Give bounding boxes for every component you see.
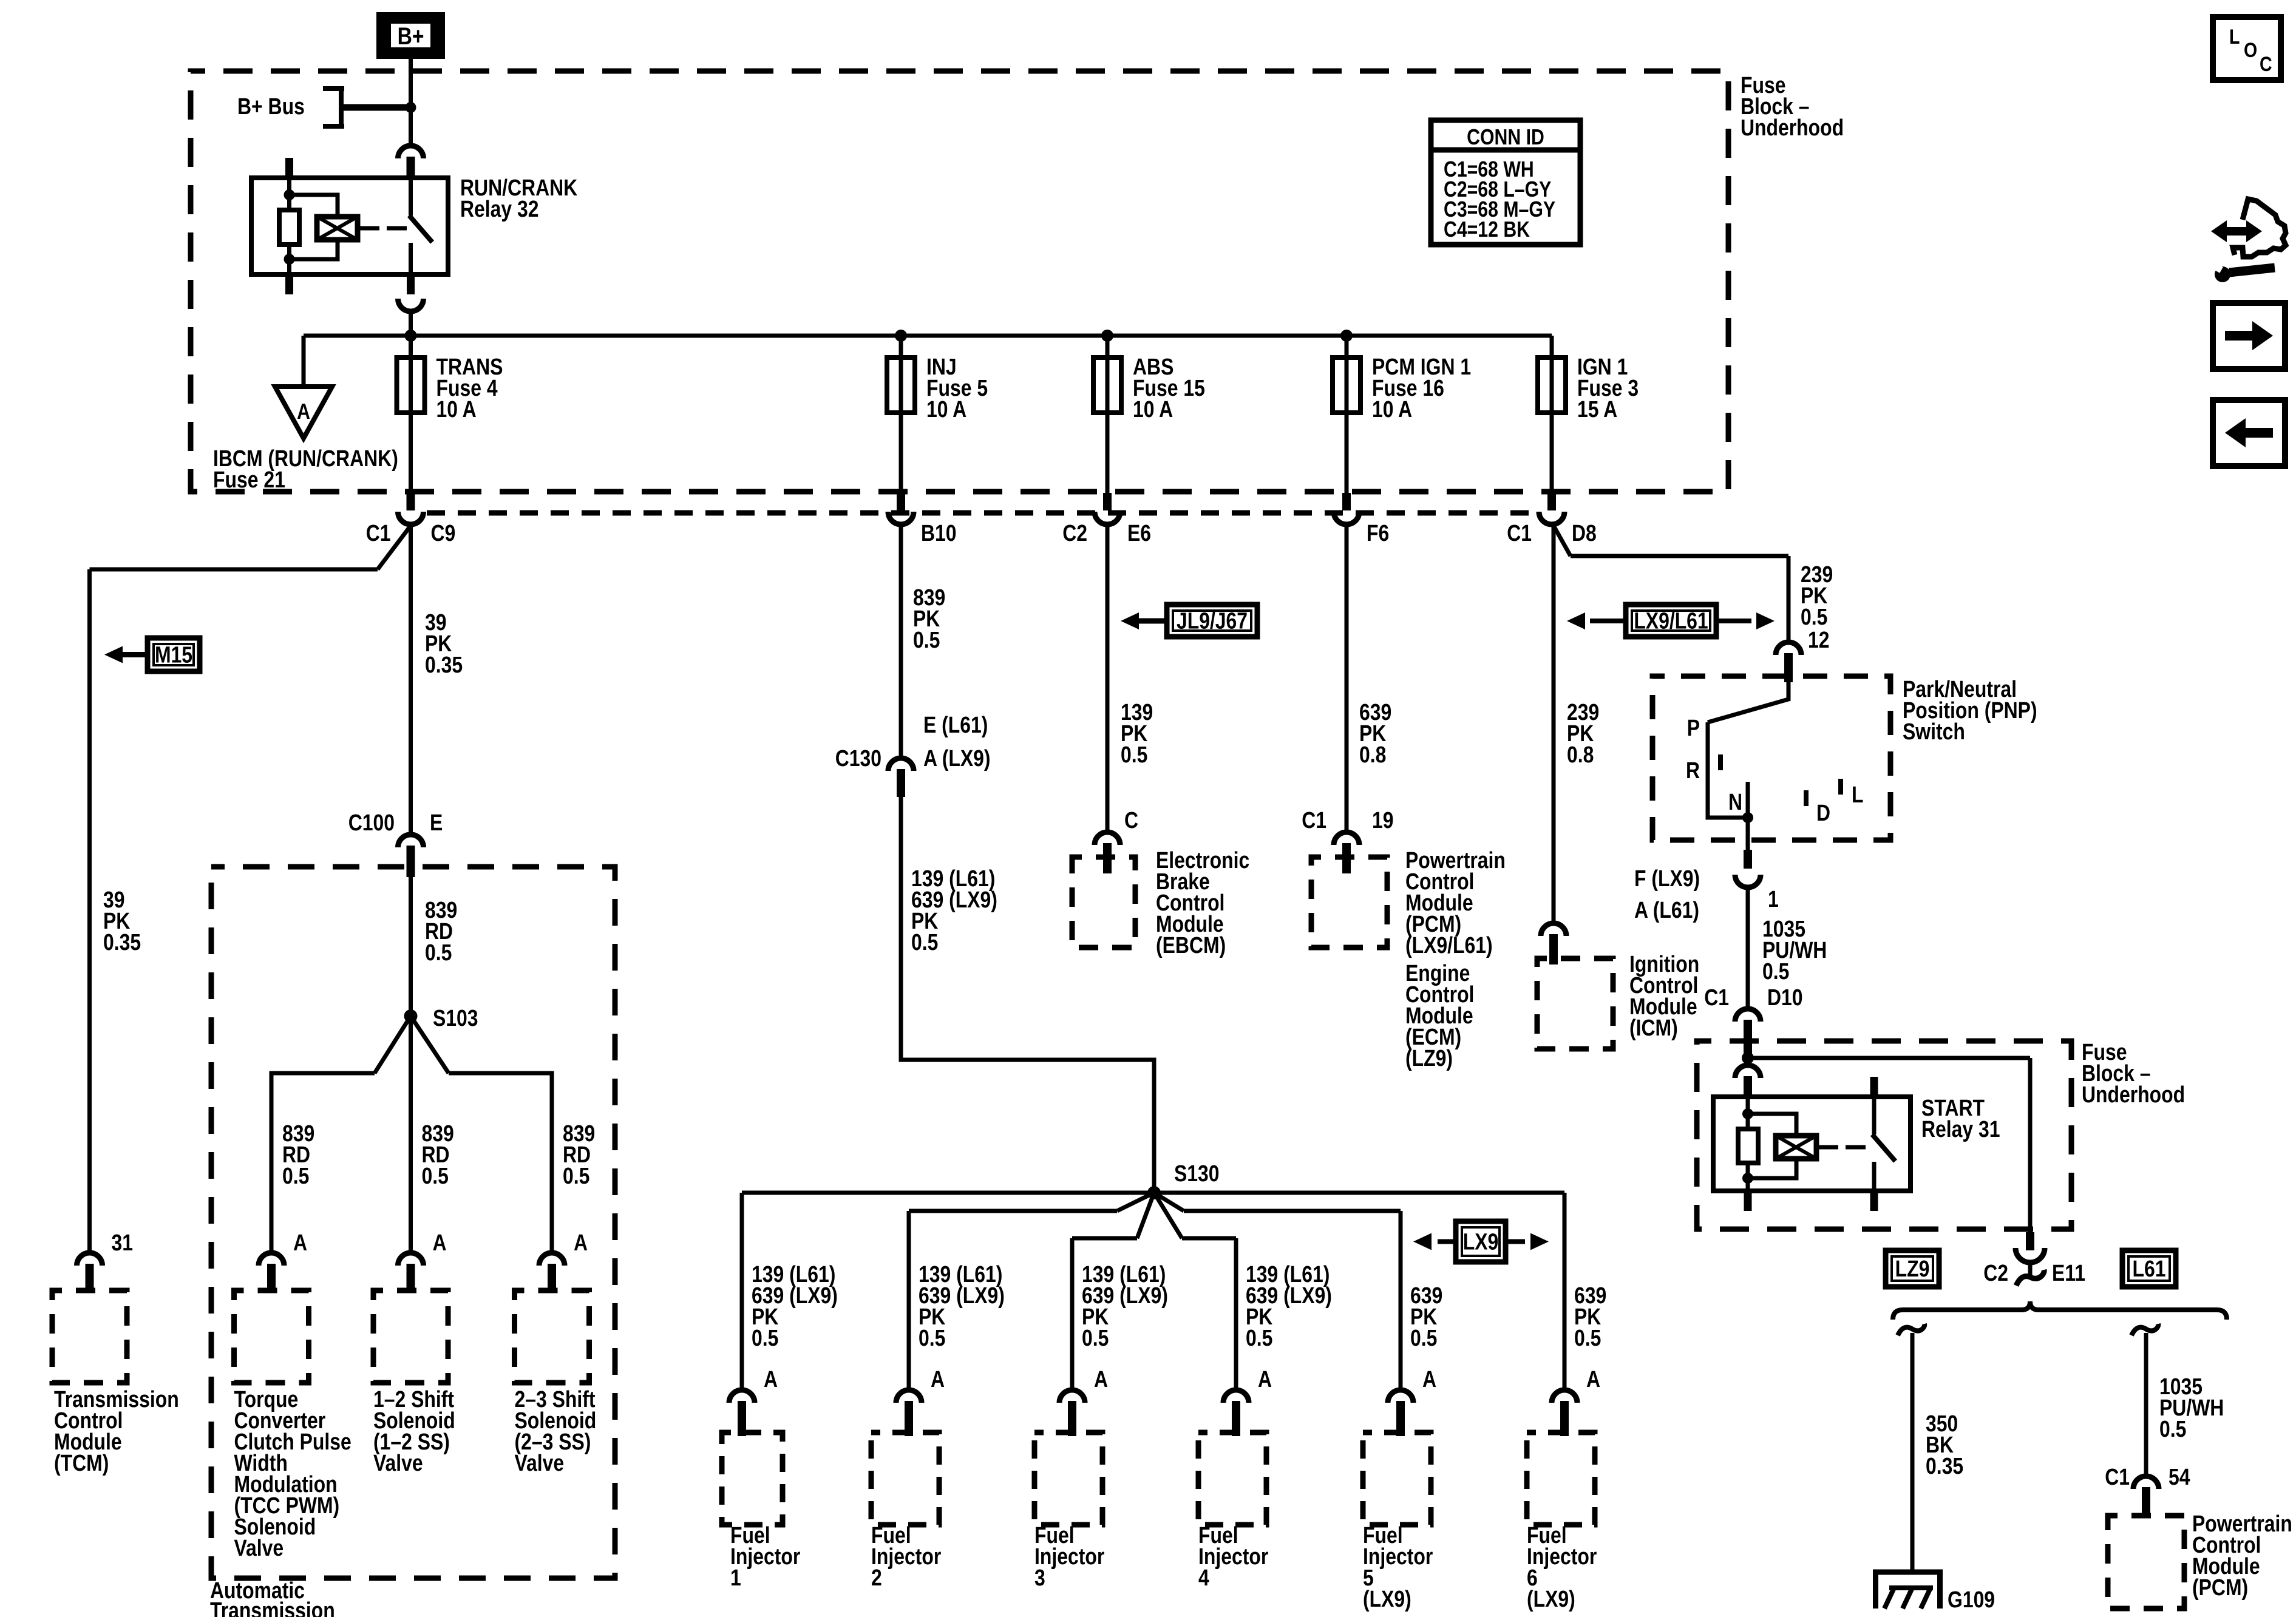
connector face dashed line (fuse block outputs) [427, 510, 1540, 516]
svg-text:12: 12 [1808, 627, 1830, 653]
label A (TCC PWM solenoid valve) [293, 1230, 307, 1255]
wire to fuel injector 6 [1563, 1193, 1567, 1390]
wire label (639 PK 0.5) injector 6 [1574, 1283, 1606, 1351]
Engine Control Module label [1405, 960, 1474, 1071]
START relay coil pin stub bottom [1744, 1191, 1752, 1211]
label F (LX9) [1634, 866, 1700, 891]
label D10 [1767, 985, 1803, 1010]
LX9 reference box [1456, 1221, 1506, 1262]
PNP contact P wire [1708, 722, 1748, 818]
connector C2/E6 pin [1103, 493, 1112, 510]
label A (LX9) [923, 745, 991, 771]
PNP junction N [1742, 812, 1753, 823]
forward arrow reference box [2213, 303, 2285, 369]
B+ Bus label [237, 93, 305, 119]
svg-text:A: A [1258, 1366, 1272, 1392]
label C1 (PCM) [1302, 807, 1326, 833]
wire C130 to S130 [901, 784, 1154, 1193]
S103 fan right diagonal [411, 1016, 449, 1073]
S130 horizontal to injector 4 [1182, 1236, 1236, 1241]
connector F6 pin [1342, 493, 1351, 510]
L61 reference box [2122, 1250, 2176, 1287]
label C9 [431, 520, 456, 546]
svg-text:54: 54 [2169, 1464, 2190, 1490]
connector C2/E11 stem [2028, 1261, 2033, 1277]
wire B+ to relay connector [409, 59, 413, 146]
START relay coil loop lower wire [1748, 1159, 1796, 1178]
Fuse Block - Underhood dashed box [191, 71, 1728, 492]
wire to 1-2 shift solenoid valve [409, 1016, 413, 1253]
svg-text:C2: C2 [1983, 1260, 2008, 1286]
svg-text:C2: C2 [1062, 520, 1087, 546]
wire label (139/639 PK 0.5) injector 1 [752, 1261, 838, 1351]
vehicle navigation icon (car outline) [2233, 199, 2286, 257]
TCC PWM solenoid valve box [234, 1290, 309, 1383]
svg-text:L61: L61 [2133, 1256, 2166, 1281]
wire break squiggle LZ9 branch [1898, 1324, 1924, 1335]
fuse Fuse 5 label [926, 354, 988, 422]
svg-text:D10: D10 [1767, 985, 1803, 1010]
back arrow reference box [2213, 400, 2285, 466]
fuse Fuse 4 label [436, 354, 503, 422]
svg-text:C1: C1 [2105, 1464, 2130, 1490]
svg-text:C1: C1 [1302, 807, 1326, 833]
connector A fuel injector 3 [1059, 1390, 1085, 1403]
Transmission Control Module box [52, 1290, 127, 1383]
Automatic Transmission dashed box [211, 867, 615, 1578]
svg-text:A: A [1586, 1366, 1600, 1392]
CONN ID header divider [1431, 147, 1580, 153]
relay resistor [279, 210, 299, 245]
wire label 839 RD 0.5 [425, 897, 457, 965]
START relay actuation dash [1846, 1145, 1866, 1150]
START relay coil connector [1735, 1065, 1761, 1078]
svg-text:F (LX9): F (LX9) [1634, 866, 1700, 891]
LX9/L61 arrow left [1590, 619, 1626, 623]
START relay coil loop upper wire [1748, 1114, 1796, 1136]
svg-text:A: A [574, 1230, 588, 1255]
splice S103 [404, 1009, 418, 1023]
RUN/CRANK Relay 32 box [251, 178, 448, 274]
svg-text:B+ Bus: B+ Bus [237, 93, 305, 119]
fuse bus line [304, 334, 1552, 338]
wire PNP drop (239 PK 0.5) [1787, 556, 1791, 642]
horizontal wire to E11 drop [1748, 1056, 2030, 1060]
wire to fuel injector 3 [1070, 1238, 1075, 1390]
connector C1/D10 [1735, 1009, 1761, 1022]
START relay switch pin stub top [1870, 1077, 1878, 1097]
connector C1/D8 pin [1547, 493, 1556, 510]
CONN ID header [1467, 126, 1544, 150]
relay output connector cup [398, 299, 424, 311]
fuel injector 4 box [1198, 1432, 1266, 1525]
wire label 239 PK 0.8 [1567, 699, 1599, 767]
relay coil loop lower wire [290, 240, 338, 259]
connector 1 pin below PNP [1744, 850, 1752, 869]
connector A fuel injector 5 [1388, 1390, 1413, 1403]
wire to 2-3 shift solenoid valve [550, 1073, 554, 1253]
connector A fuel injector 2 [896, 1390, 922, 1403]
vehicle navigation icon (double arrow) [2224, 227, 2249, 236]
fuse Fuse 3 label [1577, 354, 1639, 422]
label A (injector 4) [1258, 1366, 1272, 1392]
svg-text:A (L61): A (L61) [1634, 897, 1699, 923]
label 12 [1808, 627, 1830, 653]
fuel injector 5 box [1363, 1432, 1431, 1525]
START relay switch pin stub bottom [1870, 1191, 1878, 1211]
connector 12 PNP [1776, 642, 1801, 655]
relay coil junction upper [284, 189, 295, 200]
relay coil wire lower [287, 245, 291, 274]
svg-text:E: E [430, 810, 443, 835]
svg-text:A: A [293, 1230, 307, 1255]
connector C1/D8 cup [1539, 512, 1564, 524]
Fuse Block - Underhood 2 label [2082, 1039, 2185, 1107]
connector C1/54 [2133, 1476, 2159, 1489]
svg-text:A: A [764, 1366, 778, 1392]
svg-text:O: O [2244, 39, 2257, 62]
START relay coil junction upper [1742, 1108, 1753, 1119]
svg-text:JL9/J67: JL9/J67 [1177, 608, 1248, 634]
relay coil pin stub bottom [285, 274, 293, 294]
START relay switch blade [1872, 1134, 1895, 1161]
IBCM A triangle symbol [275, 387, 332, 438]
label C (EBCM) [1124, 807, 1138, 833]
connector C2/E6 cup [1095, 512, 1120, 524]
wire C1 branch diagonal [378, 526, 411, 569]
wire bus to fuse Fuse 4 [409, 336, 413, 493]
svg-text:LZ9: LZ9 [1895, 1256, 1930, 1281]
S130 fan diag to injector 4 [1154, 1193, 1182, 1238]
label A (L61) [1634, 897, 1699, 923]
svg-text:M15: M15 [155, 642, 192, 668]
connector A 2-3 shift solenoid valve [539, 1253, 565, 1266]
fuse Fuse 15 label [1133, 354, 1205, 422]
svg-text:C1: C1 [1507, 520, 1532, 546]
junction bus ABS [1101, 330, 1113, 342]
connector C2/E11 cup [2016, 1248, 2045, 1263]
S130 main horizontal [742, 1191, 1564, 1195]
fuse Fuse 15 (ABS 10 A) [1093, 358, 1121, 413]
label C2 (E11) [1983, 1260, 2008, 1286]
S130 horizontal to injector 3 [1072, 1236, 1137, 1241]
wire down to TCM (39 PK) [87, 569, 92, 1253]
IBCM (RUN/CRANK) Fuse 21 label [213, 446, 398, 492]
svg-text:F6: F6 [1367, 520, 1389, 546]
label B10 [921, 520, 957, 546]
wire bus to fuse Fuse 15 [1106, 336, 1110, 493]
svg-text:A: A [931, 1366, 945, 1392]
M15 reference box [148, 638, 200, 671]
svg-text:E6: E6 [1127, 520, 1151, 546]
START relay switch fixed contact lower [1872, 1162, 1877, 1191]
START Relay 31 box [1713, 1097, 1911, 1191]
label C1 [366, 520, 391, 546]
wire label 39 PK 0.35 (TCM branch) [103, 887, 141, 955]
label C2 [1062, 520, 1087, 546]
label A (injector 6) [1586, 1366, 1600, 1392]
Park/Neutral Position Switch dashed box [1652, 676, 1890, 840]
Powertrain Control Module (bottom) box [2108, 1516, 2184, 1609]
1-2 shift solenoid valve label [373, 1386, 455, 1476]
relay coil pin stub top [285, 158, 293, 178]
fuel injector 6 box [1527, 1432, 1595, 1525]
wire to fuel injector 2 [907, 1211, 911, 1390]
S103 fan right horizontal [449, 1071, 554, 1076]
S130 horizontal to injector 2 [909, 1209, 1117, 1213]
LZ9 reference box [1886, 1250, 1939, 1287]
splice S130 [1147, 1186, 1161, 1199]
label 1 [1768, 886, 1779, 912]
connector B10 pin [897, 493, 905, 510]
relay coil element [317, 217, 358, 240]
PNP contact D tick [1804, 790, 1809, 806]
relay switch fixed contact upper [409, 178, 413, 215]
fuel injector 1 box [722, 1432, 783, 1525]
label G109 [1948, 1587, 1995, 1612]
svg-text:C: C [2260, 53, 2272, 76]
Ignition Control Module box [1537, 958, 1613, 1049]
label A (injector 5) [1422, 1366, 1436, 1392]
svg-text:B+: B+ [398, 22, 424, 49]
wire into fuse block 2 [1746, 1039, 1750, 1065]
svg-text:E (L61): E (L61) [923, 712, 988, 737]
START relay coil output line [1816, 1145, 1838, 1150]
fuel injector 2 label [871, 1522, 942, 1590]
wire to PCM 54 (1035 PU/WH) [2144, 1333, 2148, 1476]
label A (1-2 shift solenoid valve) [433, 1230, 447, 1255]
connector C1/C9 cup [398, 512, 424, 524]
fuel injector 5 label [1363, 1522, 1433, 1612]
2-3 shift solenoid valve label [515, 1386, 597, 1476]
svg-text:C130: C130 [835, 745, 881, 771]
fuel injector 2 box [871, 1432, 939, 1525]
wire to TCC PWM solenoid valve [270, 1073, 274, 1253]
wire label 839 RD 0.5 (1-2 shift solenoid valve) [422, 1120, 454, 1188]
wire label 839 RD 0.5 (TCC PWM solenoid valve) [282, 1120, 314, 1188]
wire E11 drop [2028, 1058, 2033, 1234]
PNP contact R tick [1718, 754, 1723, 770]
label R [1686, 758, 1700, 783]
label 19 (PCM) [1372, 807, 1394, 833]
wire label (139/639 PK 0.5) injector 4 [1246, 1261, 1332, 1351]
connector F/A ICM [1541, 923, 1566, 936]
RUN/CRANK relay label [460, 175, 577, 222]
PNP contact N tick [1746, 782, 1750, 818]
label E11 [2052, 1260, 2085, 1286]
label C100 [348, 810, 395, 835]
Ignition Control Module label [1629, 951, 1699, 1040]
relay actuation dash [387, 226, 407, 231]
svg-text:C: C [1124, 807, 1138, 833]
Powertrain Control Module label [1405, 847, 1506, 958]
svg-text:C100: C100 [348, 810, 395, 835]
svg-text:A: A [1094, 1366, 1108, 1392]
wire label (639 PK 0.5) injector 5 [1410, 1283, 1442, 1351]
svg-text:D: D [1816, 800, 1830, 825]
wire C9 to C100 (39 PK) [409, 524, 413, 835]
connector B10 cup [888, 512, 914, 524]
connector C1/19 PCM [1334, 832, 1359, 845]
relay coil loop upper wire [290, 195, 338, 217]
svg-text:C9: C9 [431, 520, 456, 546]
svg-text:31: 31 [112, 1230, 134, 1255]
wire D8 branch horizontal to PNP [1571, 554, 1788, 558]
wire label 639 PK 0.8 [1359, 699, 1391, 767]
svg-text:LX9: LX9 [1463, 1229, 1499, 1255]
wire D8 to ICM (239 PK) [1552, 524, 1556, 923]
fuel injector 3 label [1034, 1522, 1105, 1590]
START relay coil junction lower [1742, 1173, 1753, 1184]
CONN ID rows [1444, 158, 1555, 242]
svg-text:C1: C1 [366, 520, 391, 546]
junction bus INJ [895, 330, 907, 342]
svg-text:CONN ID: CONN ID [1467, 126, 1544, 150]
fuel injector 1 label [730, 1522, 801, 1590]
label E6 [1127, 520, 1151, 546]
brace under C2/E11 [1893, 1301, 2227, 1320]
connector A TCC PWM solenoid valve [259, 1253, 284, 1266]
wire label 39 PK 0.35 [425, 609, 463, 677]
Fuse Block - Underhood label [1741, 72, 1844, 140]
wire bus to fuse Fuse 16 [1345, 336, 1349, 493]
wire label 1035 PU/WH 0.5 [1762, 916, 1827, 984]
Electronic Brake Control Module label [1156, 847, 1249, 958]
B+ power symbol [376, 12, 445, 59]
label A (injector 2) [931, 1366, 945, 1392]
connector C100/E [398, 835, 424, 847]
relay switch output pin [407, 274, 415, 294]
connector 31 TCM [77, 1253, 103, 1266]
connector C1/C9 pin [407, 493, 415, 510]
label 54 [2169, 1464, 2190, 1490]
wire bus to fuse Fuse 3 [1550, 336, 1554, 493]
svg-text:A (LX9): A (LX9) [923, 745, 991, 771]
svg-text:1: 1 [1768, 886, 1779, 912]
svg-text:B10: B10 [921, 520, 957, 546]
JL9/J67 arrow [1139, 619, 1167, 624]
label C130 [835, 745, 881, 771]
Park/Neutral Position Switch label [1903, 676, 2037, 744]
ground symbol G109 [1873, 1570, 1943, 1575]
wire to G109 (350 BK) [1911, 1333, 1915, 1572]
relay coil junction lower [284, 254, 295, 265]
START relay switch fixed contact upper [1872, 1097, 1877, 1134]
B+ Bus tap bracket [323, 86, 344, 91]
wire 1 to C1/D10 (1035 PU/WH) [1746, 887, 1750, 1009]
wire label 350 BK 0.35 [1926, 1411, 1963, 1479]
LOC reference box [2213, 17, 2281, 80]
2-3 shift solenoid valve box [515, 1290, 589, 1383]
fuel injector 6 label [1527, 1522, 1597, 1612]
S103 fan left diagonal [375, 1016, 411, 1073]
CONN ID table box [1431, 120, 1580, 245]
Powertrain Control Module box [1311, 857, 1387, 947]
LX9 arrow right [1506, 1239, 1525, 1244]
connector C2/E11 pin [2026, 1232, 2034, 1250]
TCC PWM solenoid valve label [234, 1386, 352, 1561]
Fuse Block - Underhood 2 dashed box [1697, 1041, 2071, 1229]
wire C1 branch horizontal [90, 568, 378, 572]
PNP switch arm from pin 12 [1708, 676, 1788, 722]
wire bus to fuse Fuse 5 [899, 336, 903, 493]
wire break squiggle L61 branch [2131, 1324, 2158, 1335]
wire label (139/639 PK 0.5) injector 2 [919, 1261, 1005, 1351]
wire C100 to S103 (839 RD) [409, 864, 413, 1016]
label 31 [112, 1230, 134, 1255]
Electronic Brake Control Module box [1072, 857, 1135, 947]
S130 fan diag to injector 2 [1117, 1193, 1154, 1211]
svg-text:P: P [1687, 715, 1700, 741]
svg-text:A: A [1422, 1366, 1436, 1392]
JL9/J67 reference box [1167, 605, 1257, 637]
label D8 [1572, 520, 1597, 546]
wire relay to bus [409, 311, 413, 336]
vehicle navigation icon (wrench) [2215, 266, 2230, 282]
1-2 shift solenoid valve box [373, 1290, 448, 1383]
label F6 [1367, 520, 1389, 546]
connector A fuel injector 1 [729, 1390, 755, 1403]
S103 fan left horizontal [270, 1071, 375, 1076]
junction B+ bus [406, 102, 416, 113]
label E (L61) [923, 712, 988, 737]
wire to fuel injector 4 [1234, 1238, 1238, 1390]
svg-text:L: L [1852, 782, 1863, 807]
wire to fuel injector 5 [1399, 1211, 1403, 1390]
M15 arrow [123, 652, 148, 657]
fuel injector 4 label [1198, 1522, 1269, 1590]
label D [1816, 800, 1830, 825]
svg-text:C1: C1 [1704, 985, 1729, 1010]
relay coil wire upper [287, 178, 291, 210]
connector A 1-2 shift solenoid valve [398, 1253, 424, 1266]
relay switch blade [409, 215, 432, 242]
wire label (139/639 PK 0.5) injector 3 [1082, 1261, 1168, 1351]
connector F6 cup [1334, 512, 1359, 524]
label L [1852, 782, 1863, 807]
svg-text:S103: S103 [433, 1005, 478, 1031]
wire label 139 PK 0.5 [1121, 699, 1153, 767]
START relay label [1921, 1095, 2000, 1142]
label A (injector 3) [1094, 1366, 1108, 1392]
svg-text:D8: D8 [1572, 520, 1597, 546]
START relay coil wire lower [1746, 1163, 1750, 1191]
wire label 839 RD 0.5 (2-3 shift solenoid valve) [563, 1120, 595, 1188]
fuse Fuse 5 (INJ 10 A) [887, 358, 915, 413]
S130 fan diag to injector 5 [1154, 1193, 1184, 1211]
svg-text:L: L [2229, 25, 2240, 49]
svg-text:E11: E11 [2052, 1260, 2085, 1286]
wire label 1035 PU/WH 0.5 (L61) [2159, 1374, 2224, 1442]
svg-text:S130: S130 [1174, 1161, 1220, 1186]
label A (2-3 shift solenoid valve) [574, 1230, 588, 1255]
Automatic Transmission label [210, 1578, 335, 1617]
wire label 239 PK 0.5 [1801, 561, 1833, 629]
svg-text:A: A [433, 1230, 447, 1255]
svg-text:A: A [297, 400, 310, 424]
label C1 [1507, 520, 1532, 546]
wire B10 to C130 (839 PK) [899, 524, 903, 758]
LX9/L61 reference box [1626, 605, 1716, 637]
svg-text:LX9/L61: LX9/L61 [1634, 608, 1708, 634]
wire E6 to EBCM (139 PK) [1106, 524, 1110, 832]
START relay coil wire upper [1746, 1097, 1750, 1129]
connector A fuel injector 6 [1552, 1390, 1577, 1403]
fuse Fuse 3 (IGN 1 15 A) [1538, 358, 1566, 413]
wire F6 to PCM (639 PK) [1345, 524, 1349, 832]
Powertrain Control Module (bottom) label [2192, 1511, 2292, 1600]
label C1 (fuse block) [1704, 985, 1729, 1010]
